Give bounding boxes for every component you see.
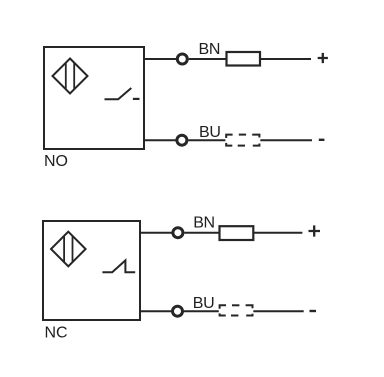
svg-text:BU: BU: [193, 295, 215, 312]
svg-text:BN: BN: [193, 215, 215, 232]
svg-text:NC: NC: [45, 325, 68, 342]
svg-text:NO: NO: [44, 153, 68, 170]
svg-text:BN: BN: [199, 41, 221, 58]
svg-text:BU: BU: [199, 124, 221, 141]
